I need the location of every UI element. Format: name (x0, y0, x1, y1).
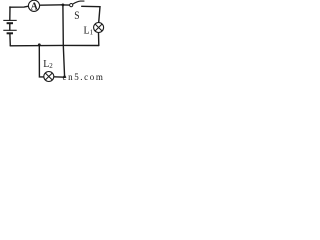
wire junction to switch (63, 4, 70, 6)
node junction dot top (62, 4, 65, 7)
battery B1 cell2 long plate (3, 29, 16, 31)
wire bottom horizontal y45 (10, 44, 99, 46)
switch S lever (73, 1, 84, 4)
wire battery bottom to corner (9, 34, 11, 46)
lamp L1 circle (94, 23, 104, 33)
node junction dot left (38, 43, 41, 46)
wire L2 to middle branch (54, 76, 65, 78)
lamp L2 circle (44, 72, 54, 82)
wire switch to top-right corner (82, 6, 100, 22)
wire left side battery top (9, 7, 11, 20)
lamp L1 X (95, 24, 102, 31)
switch S pivot circle (70, 4, 73, 7)
battery B1 cell1 short thick plate (7, 22, 13, 24)
svg-text:S: S (74, 9, 79, 22)
wire middle branch vertical (63, 5, 65, 77)
battery B1 cell2 short thick plate (7, 32, 13, 34)
battery B1 cell1 long plate (3, 19, 16, 21)
lamp L2 X (45, 73, 52, 80)
svg-text:en5.com: en5.com (63, 72, 105, 82)
ammeter A circle (28, 0, 39, 11)
wire L2 left branch (39, 45, 44, 77)
wire L1 bottom to right corner (98, 33, 100, 46)
wire ammeter to junction (40, 4, 63, 6)
wire top-left segment (10, 6, 29, 8)
svg-text:A: A (31, 1, 39, 12)
wire between battery cells (9, 24, 11, 30)
